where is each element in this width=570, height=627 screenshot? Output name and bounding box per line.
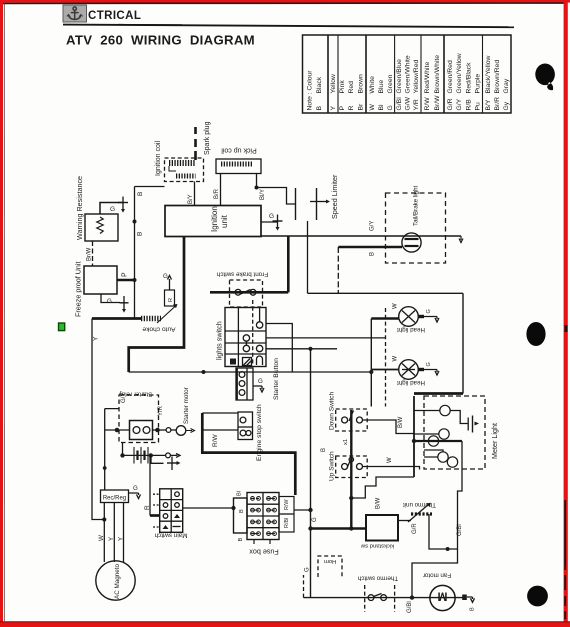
starter motor M1 xyxy=(171,426,195,436)
node junction on out 3 xyxy=(308,347,312,351)
svg-text:Speed Limiter: Speed Limiter xyxy=(330,174,339,219)
wire long horizontal Y xyxy=(129,371,372,373)
svg-text:G/Y: G/Y xyxy=(121,393,127,403)
node xyxy=(412,439,416,443)
svg-text:R/W: R/W xyxy=(424,97,431,111)
svg-text:B: B xyxy=(316,106,323,111)
svg-text:G: G xyxy=(258,378,263,385)
wire lamp 2 stub xyxy=(414,433,439,435)
freeze proof unit U1 xyxy=(84,266,117,294)
wire lights switch out 3 xyxy=(266,348,337,350)
svg-text:Starter Button: Starter Button xyxy=(273,358,280,400)
wire branch down to junction bar xyxy=(307,221,309,293)
svg-text:W: W xyxy=(387,457,393,463)
wire G/Bl drop to fan row xyxy=(412,549,458,598)
wire junction bar xyxy=(308,292,464,294)
svg-text:Red: Red xyxy=(348,81,355,94)
front brake switch S1 dashed box xyxy=(230,280,263,307)
node P xyxy=(133,278,137,282)
svg-text:Brown: Brown xyxy=(358,74,365,93)
meter light dashed box xyxy=(424,396,485,469)
svg-text:G: G xyxy=(163,273,168,280)
page frame bottom red band xyxy=(0,622,570,627)
fuse box pins xyxy=(254,540,270,545)
lamp meter 1 xyxy=(440,405,450,415)
node magneto link xyxy=(102,517,106,521)
thermo switch contacts xyxy=(368,594,386,601)
svg-text:W: W xyxy=(98,535,105,541)
wire long centre bus xyxy=(310,349,312,598)
svg-text:R/W: R/W xyxy=(212,434,219,448)
lamp meter 4 xyxy=(438,452,448,462)
speed limiter SL1 xyxy=(296,188,331,220)
wire freeze unit to ground xyxy=(101,294,120,303)
right margin black dashed line xyxy=(564,325,567,619)
svg-text:G: G xyxy=(107,298,112,305)
wire thick meter top xyxy=(414,392,463,395)
svg-text:Black/Yellow: Black/Yellow xyxy=(485,56,492,94)
wire Y thick to auto choke xyxy=(92,317,141,320)
svg-text:G/Bl: G/Bl xyxy=(396,97,403,111)
ground arrow at tail wire end xyxy=(459,236,463,243)
wire lights switch out 1 xyxy=(266,324,292,373)
resistor: warning resistance xyxy=(85,214,118,241)
colour code legend table xyxy=(303,35,512,113)
svg-text:R/Bl: R/Bl xyxy=(284,518,290,528)
svg-text:Up Switch: Up Switch xyxy=(329,451,336,481)
wire B main vertical xyxy=(134,187,136,319)
svg-text:B: B xyxy=(137,192,144,196)
fuse elements xyxy=(251,497,277,536)
svg-text:P: P xyxy=(339,106,346,111)
wire fan ground arrow xyxy=(467,597,475,602)
wire W to head light 1 xyxy=(371,317,399,319)
scan blob 1 xyxy=(535,63,555,90)
tail brake light dashed enclosure xyxy=(386,193,446,263)
down switch contacts xyxy=(342,411,363,424)
svg-text:Gray: Gray xyxy=(503,78,510,93)
wire Y magneto phase 2 xyxy=(113,503,115,563)
wire arrow end xyxy=(171,453,181,457)
svg-text:Ignition: Ignition xyxy=(210,206,219,232)
wire lights switch out 2 xyxy=(266,337,386,339)
svg-text:R: R xyxy=(348,106,355,111)
svg-text:R/B: R/B xyxy=(466,99,473,111)
wire battery to thermo unit xyxy=(398,520,411,522)
svg-text:Rec/Reg: Rec/Reg xyxy=(103,496,126,502)
wire B thick to tail lamp xyxy=(338,246,402,249)
node xyxy=(103,466,107,470)
wire pickup to speed limiter xyxy=(257,188,296,205)
svg-text:Pick up coil: Pick up coil xyxy=(221,147,257,154)
battery box BT2 xyxy=(366,515,398,541)
svg-text:G/R: G/R xyxy=(412,523,418,534)
wire battery row xyxy=(123,454,166,456)
svg-text:Meter Light: Meter Light xyxy=(490,423,499,459)
svg-text:Fan motor: Fan motor xyxy=(423,572,451,579)
svg-text:Br/W: Br/W xyxy=(434,95,441,111)
svg-text:Pu: Pu xyxy=(475,102,482,111)
svg-text:AC Magneto: AC Magneto xyxy=(114,564,121,599)
svg-text:B: B xyxy=(137,232,144,236)
fuse box right pin block xyxy=(279,497,294,533)
svg-text:B: B xyxy=(370,252,376,256)
svg-text:Main switch: Main switch xyxy=(154,532,187,539)
svg-text:B: B xyxy=(321,448,327,452)
wire engine stop top link xyxy=(202,412,238,414)
wire relay to starter motor xyxy=(153,429,167,431)
ground G1 xyxy=(118,197,128,213)
svg-text:G/Y: G/Y xyxy=(456,98,463,110)
node xyxy=(308,526,312,530)
svg-text:Tail/Brake light: Tail/Brake light xyxy=(413,185,420,226)
svg-text:G: G xyxy=(133,485,138,492)
wire G/Y relay feed xyxy=(105,409,119,490)
lamp tail/brake light xyxy=(402,233,421,252)
headlight bracket vertical xyxy=(370,319,372,407)
wire staircase to meter xyxy=(351,477,414,498)
main switch left pins xyxy=(153,494,159,527)
ignition coil T1 xyxy=(165,158,204,182)
svg-text:B/Y: B/Y xyxy=(188,194,194,204)
svg-text:G/Bl: G/Bl xyxy=(407,601,413,613)
svg-text:Green/Blue: Green/Blue xyxy=(396,59,403,94)
ground G4 xyxy=(167,457,181,471)
wire from warning resistance to ground xyxy=(100,203,123,215)
page frame left red band xyxy=(0,0,3,627)
svg-text:Ignition coil: Ignition coil xyxy=(155,141,162,176)
svg-text:Y: Y xyxy=(93,336,100,341)
rec/reg U3 xyxy=(101,490,129,503)
svg-text:Freeze proof Unit: Freeze proof Unit xyxy=(74,261,83,317)
starter button S3 connector xyxy=(236,368,253,400)
wire W up switch out xyxy=(363,467,420,470)
svg-text:B/R: B/R xyxy=(214,188,220,199)
lights switch S2 connector grid xyxy=(225,300,266,367)
svg-text:Spark plug: Spark plug xyxy=(204,121,211,155)
node battery mid xyxy=(149,453,153,457)
wire R main switch drop xyxy=(149,455,151,515)
wire main switch to fuse box xyxy=(183,507,234,509)
wire engine stop to bus xyxy=(202,429,238,431)
svg-text:Green/White: Green/White xyxy=(405,55,412,93)
svg-text:M: M xyxy=(438,590,448,604)
page frame right red band xyxy=(564,0,568,627)
svg-text:Front brake switch: Front brake switch xyxy=(216,271,268,278)
wire thick meter bus xyxy=(414,440,462,442)
thermistor R2 with arrow xyxy=(157,290,178,323)
node Bl/Y junction xyxy=(255,186,259,190)
svg-text:lights switch: lights switch xyxy=(215,321,224,360)
svg-text:B: B xyxy=(470,607,476,611)
wire to ignition coil xyxy=(135,186,165,188)
node bus xyxy=(308,508,312,512)
horn dashed box xyxy=(318,556,342,577)
wire ground head light 1 xyxy=(424,317,439,323)
spark plug P1 xyxy=(194,127,197,160)
node B junction xyxy=(133,220,137,224)
svg-text:G: G xyxy=(312,517,318,522)
svg-text:x1: x1 xyxy=(343,439,349,445)
svg-text:Red/Black: Red/Black xyxy=(466,62,473,94)
engine stop switch S4 connector xyxy=(238,412,253,440)
wire lamp 1 stub xyxy=(414,411,468,424)
svg-text:Gy: Gy xyxy=(503,101,510,110)
connector bullet xyxy=(166,428,171,433)
svg-text:R: R xyxy=(144,505,151,510)
svg-text:Bl: Bl xyxy=(378,104,385,111)
svg-text:W: W xyxy=(393,303,399,309)
svg-text:Pink: Pink xyxy=(339,80,346,94)
wire battery to ground xyxy=(151,455,164,463)
wire thick corner path from ignition unit xyxy=(129,236,184,372)
svg-text:Bl: Bl xyxy=(237,491,243,496)
svg-text:kickstand sw: kickstand sw xyxy=(360,543,394,549)
svg-text:R/W: R/W xyxy=(284,499,290,510)
node relay right xyxy=(155,428,160,433)
svg-text:B/Y: B/Y xyxy=(485,99,492,110)
svg-text:Red/White: Red/White xyxy=(424,62,431,94)
down switch S6 dashed box xyxy=(336,409,368,431)
scan blob 2 xyxy=(526,322,545,346)
svg-text:Note : Colour: Note : Colour xyxy=(307,70,314,111)
node battery left xyxy=(120,453,124,457)
wire thick main switch feed xyxy=(150,514,160,517)
wire R/W thick from engine stop xyxy=(202,413,295,495)
pick up coil L1 xyxy=(216,159,261,174)
lamp meter 2 xyxy=(439,429,449,439)
auto choke L2 coil xyxy=(141,316,161,322)
wire fan motor row xyxy=(304,597,465,599)
svg-text:B/W: B/W xyxy=(376,497,382,509)
node fan junction xyxy=(410,595,414,599)
svg-text:unit: unit xyxy=(220,214,229,228)
svg-text:Head light: Head light xyxy=(397,326,425,333)
node on long wire xyxy=(202,370,206,374)
node fuse box in xyxy=(231,506,235,510)
svg-text:B/W: B/W xyxy=(398,416,404,428)
node xyxy=(446,547,450,551)
wire B/W down switch out xyxy=(363,420,415,434)
ground G3 xyxy=(273,215,283,231)
lamp meter 5 xyxy=(447,457,457,467)
svg-text:Warning Resistance: Warning Resistance xyxy=(75,176,84,240)
svg-text:Thermo switch: Thermo switch xyxy=(357,575,398,582)
svg-text:Bl/Y: Bl/Y xyxy=(260,189,266,200)
wire thick battery feed xyxy=(311,527,367,530)
svg-text:G/Bl: G/Bl xyxy=(457,524,463,536)
ignition unit U2 xyxy=(165,206,261,237)
svg-text:Fuse box: Fuse box xyxy=(249,548,279,557)
svg-text:Auto choke: Auto choke xyxy=(142,326,175,333)
svg-text:Br/W: Br/W xyxy=(87,247,93,261)
lamp head light 1 xyxy=(399,307,424,327)
svg-text:B: B xyxy=(238,538,244,542)
wire P from freeze unit xyxy=(117,279,135,282)
wire meter out to G/Bl xyxy=(458,441,463,549)
svg-text:R: R xyxy=(168,298,174,302)
svg-text:ATV 260 WIRING DIAGRAM: ATV 260 WIRING DIAGRAM xyxy=(66,33,255,48)
svg-text:G: G xyxy=(426,309,432,313)
wire W to head light 2 xyxy=(371,369,399,371)
connector bullet xyxy=(166,453,171,458)
svg-text:Y/R: Y/R xyxy=(158,405,164,416)
svg-text:Yellow: Yellow xyxy=(330,74,337,93)
svg-text:Black: Black xyxy=(316,76,323,93)
starter relay K1 dashed box xyxy=(119,395,159,443)
svg-text:Br/R: Br/R xyxy=(494,97,501,111)
svg-text:Purple: Purple xyxy=(475,74,482,94)
wire G from rec/reg xyxy=(129,493,141,499)
page frame top red band xyxy=(0,0,570,3)
up switch S7 dashed box xyxy=(336,456,368,478)
ground G5 xyxy=(468,416,479,433)
svg-text:Br: Br xyxy=(358,103,365,111)
svg-text:White: White xyxy=(369,76,376,94)
node xyxy=(369,370,373,374)
wire Y magneto phase 3 xyxy=(123,503,125,564)
wire G/Y ignition unit output xyxy=(261,235,461,237)
fuse box F1 xyxy=(234,493,280,540)
svg-text:G/W: G/W xyxy=(405,96,412,110)
wire choke to G xyxy=(168,276,172,291)
wire meter feed vertical xyxy=(413,396,415,477)
main switch S5 connector grid xyxy=(160,489,183,533)
wire Br/W dash-dot link xyxy=(92,241,94,266)
wire relay left xyxy=(105,429,130,431)
wire relay box bottom to battery xyxy=(122,443,124,456)
svg-text:Y/R: Y/R xyxy=(413,99,420,110)
wire fuse box out xyxy=(294,509,311,511)
svg-text:Green/Yellow: Green/Yellow xyxy=(456,53,463,93)
svg-text:Brown/White: Brown/White xyxy=(434,55,441,94)
svg-text:G: G xyxy=(305,567,311,572)
wire thick branch down xyxy=(287,236,290,292)
node xyxy=(349,526,353,530)
svg-text:G: G xyxy=(387,105,394,110)
wire Bl/Y xyxy=(256,174,258,188)
svg-text:G/Y: G/Y xyxy=(370,221,376,231)
svg-text:G: G xyxy=(269,213,274,220)
wire dashed branch xyxy=(337,247,339,293)
node xyxy=(349,496,353,500)
wire thermo unit link xyxy=(429,514,458,549)
svg-text:Head light: Head light xyxy=(397,379,425,386)
up switch contacts xyxy=(342,457,363,469)
wire W magneto phase 1 xyxy=(103,503,105,563)
svg-text:G: G xyxy=(110,206,115,213)
ground G2 xyxy=(120,296,129,313)
svg-text:Green/Red: Green/Red xyxy=(447,60,454,93)
wire thick up/down switch bus xyxy=(350,410,352,529)
wire Y long left vertical xyxy=(92,319,104,520)
wire lamp 4 stub xyxy=(424,450,443,457)
svg-text:Starter motor: Starter motor xyxy=(183,387,190,424)
wire unit to ground xyxy=(261,221,278,223)
svg-text:W: W xyxy=(369,104,376,111)
wire B/R xyxy=(220,174,222,206)
wire B/Y coil to ignition unit xyxy=(194,182,196,206)
scan blob 3 xyxy=(527,586,548,607)
green registration mark xyxy=(59,323,65,331)
svg-text:CTRICAL: CTRICAL xyxy=(88,10,141,22)
headlight dashed rail xyxy=(385,308,387,407)
svg-text:W: W xyxy=(393,356,399,362)
svg-text:Down Switch: Down Switch xyxy=(329,392,336,430)
svg-text:Horn: Horn xyxy=(324,558,337,564)
headlight enclosure right xyxy=(462,293,464,393)
header anchor icon box xyxy=(63,5,87,22)
fan motor M2 xyxy=(430,585,455,610)
lamp head light 2 xyxy=(399,360,424,380)
svg-text:G/R: G/R xyxy=(447,98,454,110)
svg-text:P: P xyxy=(122,272,129,277)
svg-text:Blue: Blue xyxy=(378,80,385,94)
svg-text:Yellow/Red: Yellow/Red xyxy=(413,60,420,94)
svg-text:Green: Green xyxy=(387,74,394,93)
wire G from starter button xyxy=(253,386,264,392)
node relay left xyxy=(115,428,120,433)
thermo unit R3 xyxy=(408,503,432,522)
svg-text:Engine stop switch: Engine stop switch xyxy=(256,404,263,461)
wire B thick vertical to front brake xyxy=(210,291,288,294)
svg-text:Thermo unit: Thermo unit xyxy=(403,501,436,508)
header rule xyxy=(63,25,514,28)
fan motor terminal xyxy=(462,595,467,601)
AC magneto G1 xyxy=(96,561,135,600)
svg-text:G: G xyxy=(426,362,432,366)
svg-text:Y: Y xyxy=(330,106,337,111)
thermo switch S8 dashed rails xyxy=(365,585,395,612)
lamp meter 3 xyxy=(428,436,438,446)
starter relay contact block xyxy=(130,421,153,440)
svg-text:B: B xyxy=(239,509,245,513)
battery BT1 xyxy=(134,447,148,464)
wire G stub left xyxy=(303,575,305,598)
svg-text:Brown/Red: Brown/Red xyxy=(494,60,501,94)
wire ground head light 2 xyxy=(424,370,439,376)
front brake switch contacts xyxy=(235,289,256,295)
